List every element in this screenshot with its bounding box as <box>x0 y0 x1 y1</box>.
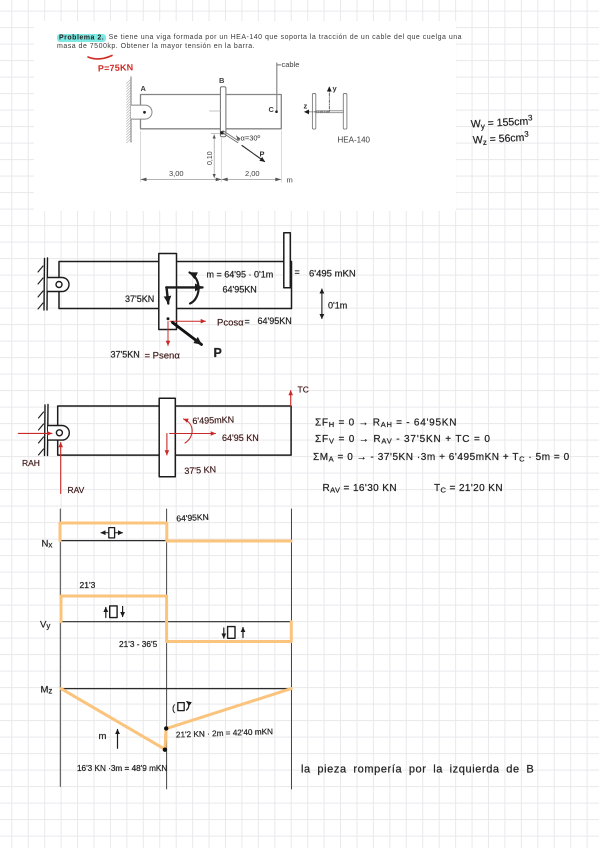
wall line at A <box>130 77 132 142</box>
svg-text:=: = <box>295 267 300 277</box>
red arrow Pcos <box>170 320 206 322</box>
svg-text:m: m <box>99 731 107 742</box>
dim arrow 0'1m <box>321 289 323 319</box>
wall hatching <box>127 79 132 143</box>
svg-text:y: y <box>333 84 338 93</box>
right flange <box>343 94 347 130</box>
svg-text:64'95KN: 64'95KN <box>223 285 257 295</box>
wall hatches <box>39 412 44 455</box>
reference line C <box>291 509 293 789</box>
reference line A <box>59 509 61 787</box>
svg-text:0,10: 0,10 <box>207 151 214 165</box>
problem statement text <box>57 33 457 52</box>
svg-text:C: C <box>269 105 275 114</box>
jump dot lower <box>163 748 167 752</box>
right end plate <box>284 233 291 288</box>
centerline tick mid beam <box>210 110 222 112</box>
svg-text:3,00: 3,00 <box>169 169 184 178</box>
svg-text:Mz: Mz <box>41 685 53 696</box>
svg-text:37'5KN: 37'5KN <box>125 294 154 304</box>
dimension arrowheads <box>141 178 282 182</box>
extension line A <box>140 131 142 182</box>
red right arrow 64'95KN <box>170 433 216 435</box>
svg-text:=: = <box>245 317 250 327</box>
svg-text:ΣFV = 0 → RAV - 37'5KN + TC: ΣFV = 0 → RAV - 37'5KN + TC = 0 <box>315 434 491 446</box>
wall hatches <box>38 266 43 309</box>
svg-text:64'95 KN: 64'95 KN <box>222 433 259 443</box>
shear symbol left: box <box>110 606 117 618</box>
Vy axis <box>61 621 292 623</box>
Mz orange curve left <box>61 689 291 750</box>
svg-text:16'3 KN ·3m = 48'9 mKN: 16'3 KN ·3m = 48'9 mKN <box>77 764 167 773</box>
extension line B <box>221 138 223 182</box>
red down arrow Psen <box>167 322 169 346</box>
pin circle <box>56 430 62 436</box>
y axis dash-dot <box>328 87 330 111</box>
svg-text:TC: TC <box>298 385 309 395</box>
red arrow RAH <box>18 432 52 434</box>
svg-text:6'495 mKN: 6'495 mKN <box>309 269 356 280</box>
Nx axis <box>60 540 292 542</box>
thick right arrow 64'95KN <box>166 286 202 288</box>
m arrow <box>117 730 119 749</box>
pin tongue <box>48 278 70 292</box>
node C <box>275 110 278 113</box>
svg-text:64'95KN: 64'95KN <box>258 316 292 326</box>
link element at 30 deg <box>222 131 239 143</box>
wall line <box>45 405 49 456</box>
svg-text:z: z <box>304 102 308 111</box>
bottom dimension line <box>141 178 282 180</box>
svg-text:21'2 KN · 2m = 42'40 mKN: 21'2 KN · 2m = 42'40 mKN <box>176 727 273 739</box>
web <box>316 111 344 113</box>
beam outline <box>59 262 292 309</box>
svg-text:P=75KN: P=75KN <box>98 62 134 73</box>
svg-text:RAV = 16'30 KN TC = 21'20 K: RAV = 16'30 KN TC = 21'20 KN <box>323 483 503 495</box>
shear symbol left: down arrow <box>122 607 124 617</box>
svg-text:(: ( <box>172 703 176 714</box>
svg-text:cable: cable <box>282 60 300 69</box>
svg-text:0'1m: 0'1m <box>328 301 347 311</box>
plate B sketch <box>159 398 175 477</box>
tension symbol box <box>109 528 115 538</box>
beam outline <box>141 95 282 129</box>
plate B <box>220 87 226 137</box>
reference line B <box>166 509 168 789</box>
angle leader arrow <box>237 136 240 140</box>
thick down arrow <box>167 287 169 303</box>
svg-text:Wz = 56cm3: Wz = 56cm3 <box>472 130 529 148</box>
tension symbol line <box>101 532 123 534</box>
svg-text:m: m <box>287 176 293 185</box>
dimension 0,10 vertical line <box>213 135 215 179</box>
svg-text:ΣMA = 0 → - 37'5KN ·3m + 6': ΣMA = 0 → - 37'5KN ·3m + 6'495mKN + TC ·… <box>313 452 570 464</box>
node dot below plate <box>167 317 170 320</box>
svg-text:B: B <box>219 76 225 85</box>
red arrow TC <box>290 391 292 407</box>
svg-text:37'5KN: 37'5KN <box>111 350 140 360</box>
svg-text:64'95KN: 64'95KN <box>176 512 209 524</box>
moment arc m <box>190 273 199 304</box>
red underline under 7500kp <box>88 56 112 59</box>
pin dot <box>143 111 146 114</box>
svg-text:m = 64'95 · 0'1m: m = 64'95 · 0'1m <box>207 270 274 280</box>
Nx orange curve <box>60 523 291 541</box>
shear symbol left: up arrow <box>105 608 107 618</box>
svg-text:Vy: Vy <box>40 620 50 631</box>
svg-text:21'3 - 36'5: 21'3 - 36'5 <box>119 639 158 649</box>
svg-text:RAH: RAH <box>22 458 40 468</box>
svg-text:P: P <box>214 346 222 360</box>
svg-text:2,00: 2,00 <box>245 169 260 178</box>
red arrow RAV <box>60 443 62 494</box>
svg-text:21'3: 21'3 <box>80 580 96 590</box>
shear symbol right: up arrow <box>242 628 244 638</box>
red moment arc <box>184 419 193 443</box>
white pasted problem image background <box>34 21 456 211</box>
jump dot upper <box>164 726 168 730</box>
Mz axis <box>61 688 292 690</box>
pin tongue <box>48 426 69 441</box>
Vy orange curve <box>61 596 291 642</box>
shear symbol right: box <box>228 627 235 639</box>
red down arrow 37'5 <box>166 434 168 456</box>
pin circle <box>56 282 62 288</box>
svg-text:6'495mKN: 6'495mKN <box>192 415 234 426</box>
svg-text:= Psenα: = Psenα <box>145 351 181 362</box>
svg-text:Pcosα: Pcosα <box>217 318 244 329</box>
svg-text:RAV: RAV <box>68 485 85 495</box>
svg-text:ΣFH = 0 → RAH = - 64'95KN: ΣFH = 0 → RAH = - 64'95KN <box>315 418 457 430</box>
svg-text:HEA-140: HEA-140 <box>338 136 371 145</box>
svg-text:P: P <box>260 150 265 159</box>
svg-text:Nx: Nx <box>42 539 53 550</box>
svg-text:α=30º: α=30º <box>241 134 261 143</box>
joint square at plate bottom <box>220 131 223 134</box>
beam outline <box>58 406 291 455</box>
thick P arrow <box>173 323 202 345</box>
shear symbol right: down arrow <box>223 628 225 638</box>
moment sense symbol (box with curl) <box>172 702 189 715</box>
extension line C <box>280 131 282 182</box>
pin support tongue <box>131 105 152 119</box>
z axis arrow <box>305 111 330 113</box>
plate B sketch <box>159 254 177 330</box>
svg-text:37'5 KN: 37'5 KN <box>184 464 216 476</box>
force arrow P <box>242 146 265 162</box>
centerline tick below plate <box>211 132 226 134</box>
wall line <box>44 258 48 310</box>
left flange <box>312 94 315 130</box>
svg-text:Wy = 155cm3: Wy = 155cm3 <box>470 113 533 131</box>
cable line <box>277 63 281 112</box>
svg-text:la pieza rompería por la izqui: la pieza rompería por la izquierda de B <box>301 764 534 776</box>
svg-text:A: A <box>141 84 147 93</box>
